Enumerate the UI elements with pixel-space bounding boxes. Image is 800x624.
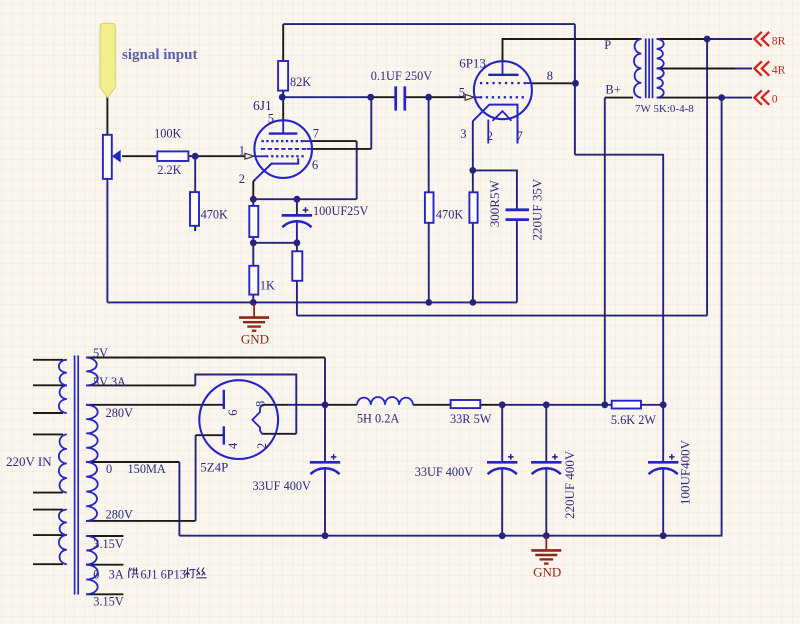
svg-text:6: 6 (226, 410, 240, 416)
tube 6J1 cathode (255, 158, 298, 179)
wire 33UF cap1 branch lower (324, 479, 326, 536)
junction bypass cap top (294, 196, 301, 203)
svg-text:470K: 470K (436, 208, 463, 222)
transformer PT primary winding e (59, 535, 67, 564)
wire feedback riser from 8R tap (706, 39, 708, 316)
tube 6P13 cathode (473, 105, 518, 144)
tube 6P13 grid row pin8 (480, 82, 482, 84)
resistor cathode upper body (249, 206, 258, 237)
capacitor 220UF400V (531, 461, 561, 464)
resistor 82K body (278, 61, 288, 91)
wire coupling cap to 6P13 grid pin 5 (405, 96, 465, 98)
svg-text:280V: 280V (106, 406, 133, 420)
inductor 5H choke (357, 397, 413, 405)
svg-text:220UF 35V: 220UF 35V (530, 178, 545, 240)
wire 33UF cap1 branch upper (324, 405, 326, 463)
wire primary stub 3 (33, 412, 63, 414)
svg-text:5.6K 2W: 5.6K 2W (611, 413, 656, 427)
wire pin7 riser down to cathode row (356, 141, 358, 199)
junction 5.6K right (660, 401, 667, 408)
svg-text:GND: GND (533, 565, 561, 580)
label CJK deng (185, 568, 196, 579)
svg-text:82K: 82K (290, 75, 311, 89)
wire 220UF/400V branch upper (545, 405, 547, 463)
tube 6P13 pin2 stub (487, 120, 489, 144)
wire primary stub 6 (33, 509, 63, 511)
wire 6P13 plate line to OPT P (503, 39, 642, 62)
signal input connector (100, 23, 115, 97)
wire 4R tap to terminal (735, 68, 752, 70)
tube 6J1 grid row pin1 (255, 155, 267, 157)
wire 5V 3A loop (195, 375, 296, 434)
junction 220UF/400V top (543, 401, 550, 408)
wire HV centre tap 0 150MA lead (86, 461, 179, 463)
svg-text:33UF 400V: 33UF 400V (415, 465, 474, 479)
wire primary stub 1 (33, 359, 63, 361)
junction B+ 5.6K left (601, 401, 608, 408)
junction rectifier output (322, 401, 329, 408)
ground GND 1 (253, 303, 255, 317)
svg-text:B+: B+ (605, 82, 620, 96)
wire 33UF cap2 branch lower (501, 479, 503, 536)
wire 470K R1 bottom stub (194, 226, 196, 231)
wire choke to 33R (413, 404, 451, 406)
capacitor 0.1UF coupling (394, 86, 397, 110)
wire 2.2K to 6J1 grid pin 1 (188, 155, 245, 157)
wire filament lower to loop (262, 433, 297, 435)
tube 6J1 grid row pin7 (262, 140, 264, 142)
svg-text:5H 0.2A: 5H 0.2A (357, 411, 399, 425)
wire 33UF cap2 branch upper (501, 405, 503, 463)
wire 8R tap to terminal (707, 38, 752, 40)
svg-text:5: 5 (459, 86, 465, 100)
svg-text:P: P (604, 38, 611, 52)
potentiometer RP1 body (103, 135, 112, 179)
wire plate node L-run to 5.6K (575, 155, 663, 405)
junction 6P13 grid node (425, 94, 432, 101)
wire feedback rail (297, 315, 707, 317)
svg-text:470K: 470K (201, 208, 228, 222)
svg-text:3.15V: 3.15V (93, 595, 124, 609)
svg-text:7: 7 (517, 129, 523, 143)
junction PSU GND (543, 532, 550, 539)
potentiometer wiper arrow (112, 150, 121, 163)
svg-text:GND: GND (241, 332, 269, 347)
svg-text:5: 5 (268, 111, 274, 125)
junction cap2 ground (499, 532, 506, 539)
svg-text:220V IN: 220V IN (6, 454, 52, 469)
wire OPT secondary 4R lead (657, 68, 735, 70)
svg-text:5Z4P: 5Z4P (200, 460, 228, 475)
junction 470K ground (425, 299, 432, 306)
wire OPT B+ lead (605, 97, 633, 99)
capacitor 100UF25V bypass (282, 214, 312, 217)
resistor 470K R2 body (425, 192, 434, 223)
tube 6J1 grid row pin6 (261, 148, 307, 150)
junction cap1 ground (322, 532, 329, 539)
svg-text:1K: 1K (260, 279, 275, 293)
wire 33R to 33UF node (480, 404, 502, 406)
svg-text:300R5W: 300R5W (487, 180, 502, 228)
wire coupling cap left lead (371, 96, 396, 98)
junction 0 terminal tap (718, 94, 725, 101)
transformer PT heater winding upper (86, 536, 98, 565)
wire grid node down to 470K R1 (194, 156, 196, 192)
svg-text:6J1 6P13: 6J1 6P13 (141, 568, 186, 582)
wire 6P13 pin 3 cathode branch (472, 121, 474, 302)
label CJK si (196, 568, 206, 578)
transformer PT primary winding c (59, 434, 67, 492)
wire plate node to coupling cap (282, 96, 371, 98)
svg-text:8R: 8R (772, 33, 786, 47)
wire 0 terminal drop to ground (663, 98, 721, 536)
wire pot wiper to 2.2K (122, 155, 157, 157)
terminal 0 chevron (754, 90, 761, 104)
transformer PT primary winding b (59, 385, 67, 413)
tube 6P13 envelope (474, 61, 532, 119)
tube 5Z4P plate pin4 (223, 426, 225, 444)
wire 6J1 pin 5 riser (282, 97, 284, 120)
transformer OPT core (645, 38, 647, 98)
wire 0 tap to terminal (722, 97, 752, 99)
wire primary stub 2 (33, 384, 63, 386)
svg-text:0 150MA: 0 150MA (106, 462, 166, 476)
capacitor 220UF 35V (506, 208, 530, 211)
svg-text:5V: 5V (93, 346, 108, 360)
tube 6P13 grid row pin5 (475, 96, 480, 98)
wire primary stub 8 (33, 563, 63, 565)
svg-text:100K: 100K (154, 127, 181, 141)
svg-text:33R 5W: 33R 5W (450, 412, 492, 426)
transformer PT primary winding a (59, 360, 67, 386)
wire bypass cap branch lower / feedback resistor (296, 232, 298, 316)
capacitor 33UF400V C1 (310, 461, 340, 464)
wire vertical plate-node riser x=575 (574, 24, 576, 155)
resistor 2.2K body (157, 151, 188, 161)
svg-text:3: 3 (460, 127, 466, 141)
wire 5V top lead (86, 357, 325, 359)
wire pin6 riser up to plate node (370, 97, 372, 149)
svg-text:2: 2 (239, 172, 245, 186)
tube 6P13 plate (488, 74, 518, 76)
capacitor 100UF400V (648, 461, 678, 464)
resistor 300R5W body (469, 192, 477, 223)
wire 220UF/400V branch lower (545, 479, 547, 536)
junction coupling cap left (367, 94, 374, 101)
wire 6P13 pin 8 lead (532, 82, 576, 84)
wire 82K bottom lead (282, 91, 284, 98)
resistor 33R 5W body (451, 400, 481, 408)
wire signal input jack to volume pot (106, 97, 108, 135)
resistor 1K body (249, 266, 258, 295)
transformer PT heater winding lower (86, 565, 98, 595)
tube 5Z4P plate pin6 (223, 390, 225, 409)
svg-text:2: 2 (255, 443, 269, 449)
svg-text:0 3A: 0 3A (93, 568, 124, 582)
svg-text:6P13: 6P13 (459, 56, 486, 71)
ground GND 2 (545, 536, 547, 550)
junction cathode mid (250, 239, 257, 246)
wire B+ rail cap1 to choke (325, 404, 357, 406)
terminal 8R chevron (754, 32, 761, 46)
svg-text:2: 2 (487, 129, 493, 143)
wire heater 3.15V stub bottom (86, 593, 123, 595)
wire cathode mid row (253, 242, 297, 244)
svg-text:8: 8 (547, 69, 553, 83)
transformer OPT secondary (657, 39, 664, 98)
transformer OPT primary (634, 39, 641, 98)
wire OPT secondary 0 lead (657, 97, 722, 99)
wire 220UF/35V bottom to ground rail (516, 220, 518, 303)
tube 6J1 envelope (254, 120, 312, 178)
svg-text:4R: 4R (772, 62, 786, 76)
resistor feedback body (292, 251, 302, 280)
transformer PT 5V winding (86, 358, 98, 386)
wire 6J1 pin 6 lead (312, 148, 371, 150)
svg-text:3.15V: 3.15V (93, 537, 124, 551)
svg-text:6: 6 (312, 158, 318, 172)
resistor 5.6K 2W body (612, 401, 641, 409)
junction 6P13 cathode node (469, 167, 476, 174)
wire B+ filter rail (502, 404, 612, 406)
wire primary stub 5 (33, 492, 63, 494)
junction 82K/plate node (279, 94, 286, 101)
wire cathode row (253, 198, 356, 200)
wire 5.6K right segment (641, 404, 663, 406)
transformer PT HV winding upper (86, 405, 98, 462)
junction 6J1 cathode (250, 196, 257, 203)
wire 82K top lead (282, 24, 284, 61)
wire primary stub 4 (33, 433, 63, 435)
junction 8R feedback tap (704, 36, 711, 43)
wire PSU ground rail (179, 535, 663, 537)
svg-text:33UF 400V: 33UF 400V (253, 479, 312, 493)
svg-text:220UF 400V: 220UF 400V (562, 450, 577, 519)
wire 5V drop to B+ node (324, 358, 326, 405)
junction grid node (192, 153, 199, 160)
wire 100UF/400V branch upper (662, 405, 664, 463)
wire B+ drop to filter rail (604, 98, 606, 405)
wire centre tap drop to ground rail (178, 462, 180, 536)
6J1 grid input arrow (245, 153, 254, 159)
junction 300R ground (470, 299, 477, 306)
wire 6J1 pin 2 cathode drop (253, 179, 255, 199)
tube 5Z4P envelope (199, 380, 278, 459)
wire 280V bottom lead (86, 520, 195, 522)
wire 470K R2 grid leak branch (428, 97, 430, 302)
wire cathode node to 220UF/35V (473, 170, 517, 209)
capacitor 33UF400V C2 (487, 461, 517, 464)
svg-text:7W 5K:0-4-8: 7W 5K:0-4-8 (635, 103, 694, 115)
svg-text:5V 3A: 5V 3A (93, 375, 126, 389)
wire 6J1 pin 7 lead (312, 140, 357, 142)
wire 280V bottom riser (195, 435, 197, 521)
wire top rail from 82K to 6P13 plate node (283, 23, 575, 25)
wire heater 0 stub (86, 564, 123, 566)
svg-text:signal input: signal input (122, 47, 197, 63)
transformer PT primary winding d (59, 510, 67, 535)
junction 6P13 pin 8 plate node (572, 80, 579, 87)
wire primary stub 7 (33, 534, 63, 536)
wire OPT secondary 8R lead (657, 38, 707, 40)
wire pot bottom to ground rail (106, 179, 108, 303)
junction bypass cap bottom (294, 239, 301, 246)
svg-text:100UF25V: 100UF25V (313, 204, 368, 218)
svg-text:0.1UF 250V: 0.1UF 250V (371, 69, 433, 83)
wire rectifier output filament top (262, 404, 288, 406)
wire cathode resistor chain (252, 199, 254, 302)
svg-text:2.2K: 2.2K (157, 163, 181, 177)
wire 100UF/400V branch lower (662, 479, 664, 536)
svg-text:0: 0 (772, 91, 778, 105)
junction 1K to GND (250, 299, 257, 306)
svg-text:280V: 280V (106, 508, 133, 522)
tube 6J1 plate (269, 132, 298, 134)
transformer PT HV winding lower (86, 462, 98, 521)
wire heater 3.15V stub top (86, 535, 123, 537)
tube 5Z4P filament (252, 405, 262, 434)
wire 5V 3A lead (86, 384, 195, 386)
resistor 470K R1 body (190, 192, 199, 226)
6P13 grid input arrow (465, 94, 474, 100)
wire signal ground rail (107, 301, 517, 303)
svg-text:100UF400V: 100UF400V (678, 439, 693, 505)
transformer PT core (74, 356, 76, 595)
svg-text:7: 7 (313, 127, 319, 141)
terminal 4R chevron (754, 61, 761, 75)
wire 280V top lead to 5Z4P pin 6 (86, 404, 224, 406)
wire bypass cap branch upper (296, 199, 298, 215)
svg-text:8: 8 (254, 401, 268, 407)
wire riser to 5Z4P pin 4 (196, 434, 224, 436)
tube 6P13 heater (493, 111, 512, 121)
wire rectifier output to first cap (288, 404, 325, 406)
junction 33R out (499, 401, 506, 408)
svg-text:4: 4 (226, 442, 240, 449)
label CJK gong (129, 568, 139, 579)
junction cap4 ground (660, 532, 667, 539)
svg-text:1: 1 (239, 143, 245, 157)
